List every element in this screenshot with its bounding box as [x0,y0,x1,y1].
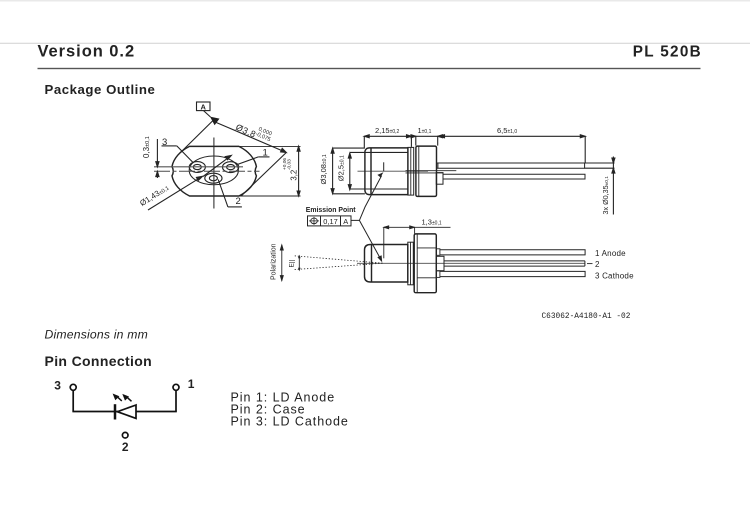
tangent line upper left [181,121,214,153]
svg-text:0,3±0,1: 0,3±0,1 [142,136,151,158]
terminal pin 3 [70,384,76,390]
header bottom rule [38,68,701,69]
label 1 with leader [237,148,269,165]
svg-text:Package Outline: Package Outline [45,82,156,97]
bottom flat extension line [190,195,301,197]
svg-text:Ø3,8: Ø3,8 [234,122,257,140]
svg-text:PL 520B: PL 520B [633,43,702,60]
light emission arrow b [122,394,131,401]
light emission arrow a [113,394,122,401]
svg-text:3: 3 [54,379,61,393]
lower lead top view [443,174,585,179]
svg-text:Version 0.2: Version 0.2 [38,42,136,60]
dimension 3x diameter 0,35 [585,157,615,215]
label pin 2 [122,440,129,454]
dimension diameter 3,08 [331,148,365,194]
weld ring bottom view [408,242,414,285]
top flat extension line [190,145,301,147]
dimension 0,3 +-0,1 line [156,139,159,178]
laser diode symbol [115,404,136,419]
svg-text:A: A [343,217,348,226]
extension lines for top dims [364,136,585,163]
vertical centerline front view [213,138,215,209]
lead 1 bottom view [436,249,585,256]
emission point leader fork [351,172,383,220]
svg-text:0,17: 0,17 [323,217,337,226]
label 1,3 [422,217,442,226]
diameter 3,8 dimension line [215,122,287,153]
pin axis horizontal line [154,166,243,168]
header title PL 520B [633,43,702,60]
header title Version 0.2 [38,42,136,60]
section heading Pin Connection [45,353,153,369]
note dimensions in mm [45,327,148,341]
label diameter 3,8 [234,118,273,146]
pin 3 front view [189,162,205,173]
can outline front view [172,146,256,196]
svg-text:1±0,1: 1±0,1 [418,126,432,135]
svg-text:A: A [200,102,206,111]
cap body bottom view [365,245,408,283]
terminal pin 1 [173,384,179,390]
flange top view [416,146,437,196]
svg-text:6,5±1,0: 6,5±1,0 [497,126,517,135]
svg-text:C63062-A4180-A1 -02: C63062-A4180-A1 -02 [542,313,631,321]
label diameter 2,5 [337,155,346,181]
dimension line 2,15 / 1 / 6,5 [364,135,585,138]
polarization label [270,243,277,280]
label 1 [418,126,432,135]
label diameter 1,43 [138,183,170,208]
lead 2 bottom view [444,261,585,266]
svg-text:2: 2 [236,196,241,207]
middle hidden lines [406,171,457,173]
axis centerline bottom side view [357,262,585,264]
dimension 1,3 [384,226,451,258]
svg-text:2: 2 [122,440,129,454]
datum A box [197,102,211,117]
svg-text:3x Ø0,35±0,1: 3x Ø0,35±0,1 [601,176,610,215]
label diameter 3,08 [319,154,328,184]
weld ring top view [408,147,414,195]
page top scan edge [0,0,750,2]
svg-text:-0,03: -0,03 [287,159,293,170]
svg-text:1 Anode: 1 Anode [595,249,626,258]
svg-text:Ø2,5±0,1: Ø2,5±0,1 [337,155,346,181]
lower lead base block [436,173,443,185]
label 2,15 [375,126,400,135]
svg-text:E||: E|| [289,259,296,267]
svg-text:Pin 3: LD Cathode: Pin 3: LD Cathode [231,415,349,429]
polarization direction arrow front view [203,155,231,176]
can axis horizontal line [154,170,260,172]
label 2 with leader [218,180,242,207]
emission point leader to bottom view [359,220,382,262]
lead label 2 [595,260,600,269]
pin 1 front view [223,162,239,173]
svg-text:Emission Point: Emission Point [306,207,356,214]
lead 3 bottom view [436,271,585,278]
section heading Package Outline [45,82,156,97]
diameter 1,43 leader [148,176,203,210]
emission point label [306,207,356,214]
label pin 3 [54,379,61,393]
E parallel label [289,259,296,267]
svg-text:Ø3,08±0,1: Ø3,08±0,1 [319,154,328,184]
pin description list [231,390,349,428]
dimension 3,2 vertical line [297,146,300,196]
svg-text:3,2: 3,2 [290,170,299,181]
svg-text:Dimensions in mm: Dimensions in mm [45,327,148,341]
dimension diameter 2,5 [348,152,371,189]
wire horizontal [72,411,176,413]
svg-text:2,15±0,2: 2,15±0,2 [375,126,400,135]
lead 2 dash [587,263,593,265]
wire pin 3 vertical [72,391,74,412]
label 3x diameter 0,35 [601,176,610,215]
lead label 1 Anode [595,249,626,258]
wire pin 1 vertical [175,391,177,412]
svg-text:1,3±0,1: 1,3±0,1 [422,217,442,226]
label 3,2 [282,158,299,181]
tangent line lower right [241,153,286,196]
polarization spread tick [298,255,301,272]
feature control frame [308,216,352,226]
label 6,5 [497,126,517,135]
document number [542,313,631,321]
label pin 1 [188,377,195,391]
label 3 with leader [162,137,194,163]
svg-text:3 Cathode: 3 Cathode [595,271,634,280]
svg-text:2: 2 [595,260,600,269]
svg-text:1: 1 [188,377,195,391]
polarization fan dotted lines [293,256,383,270]
header top rule [0,43,750,44]
axis centerline top side view [358,170,429,172]
lead label 3 Cathode [595,271,634,280]
svg-text:Ø1,43±0,1: Ø1,43±0,1 [138,183,170,208]
flange bottom view [414,234,436,293]
datum arrowhead filled [210,117,220,126]
emission point tick top view [383,162,385,171]
base block bottom view [436,256,444,270]
upper lead top view [436,163,584,168]
cap body top view [365,148,408,195]
terminal pin 2 [122,432,128,438]
label 0,3 +-0,1 [142,136,151,158]
inner cap circle front view [189,156,238,185]
svg-text:Pin Connection: Pin Connection [45,353,153,369]
polarization double arrow [280,245,283,281]
pin 2 front view [205,173,222,183]
svg-text:Polarization: Polarization [270,243,277,280]
